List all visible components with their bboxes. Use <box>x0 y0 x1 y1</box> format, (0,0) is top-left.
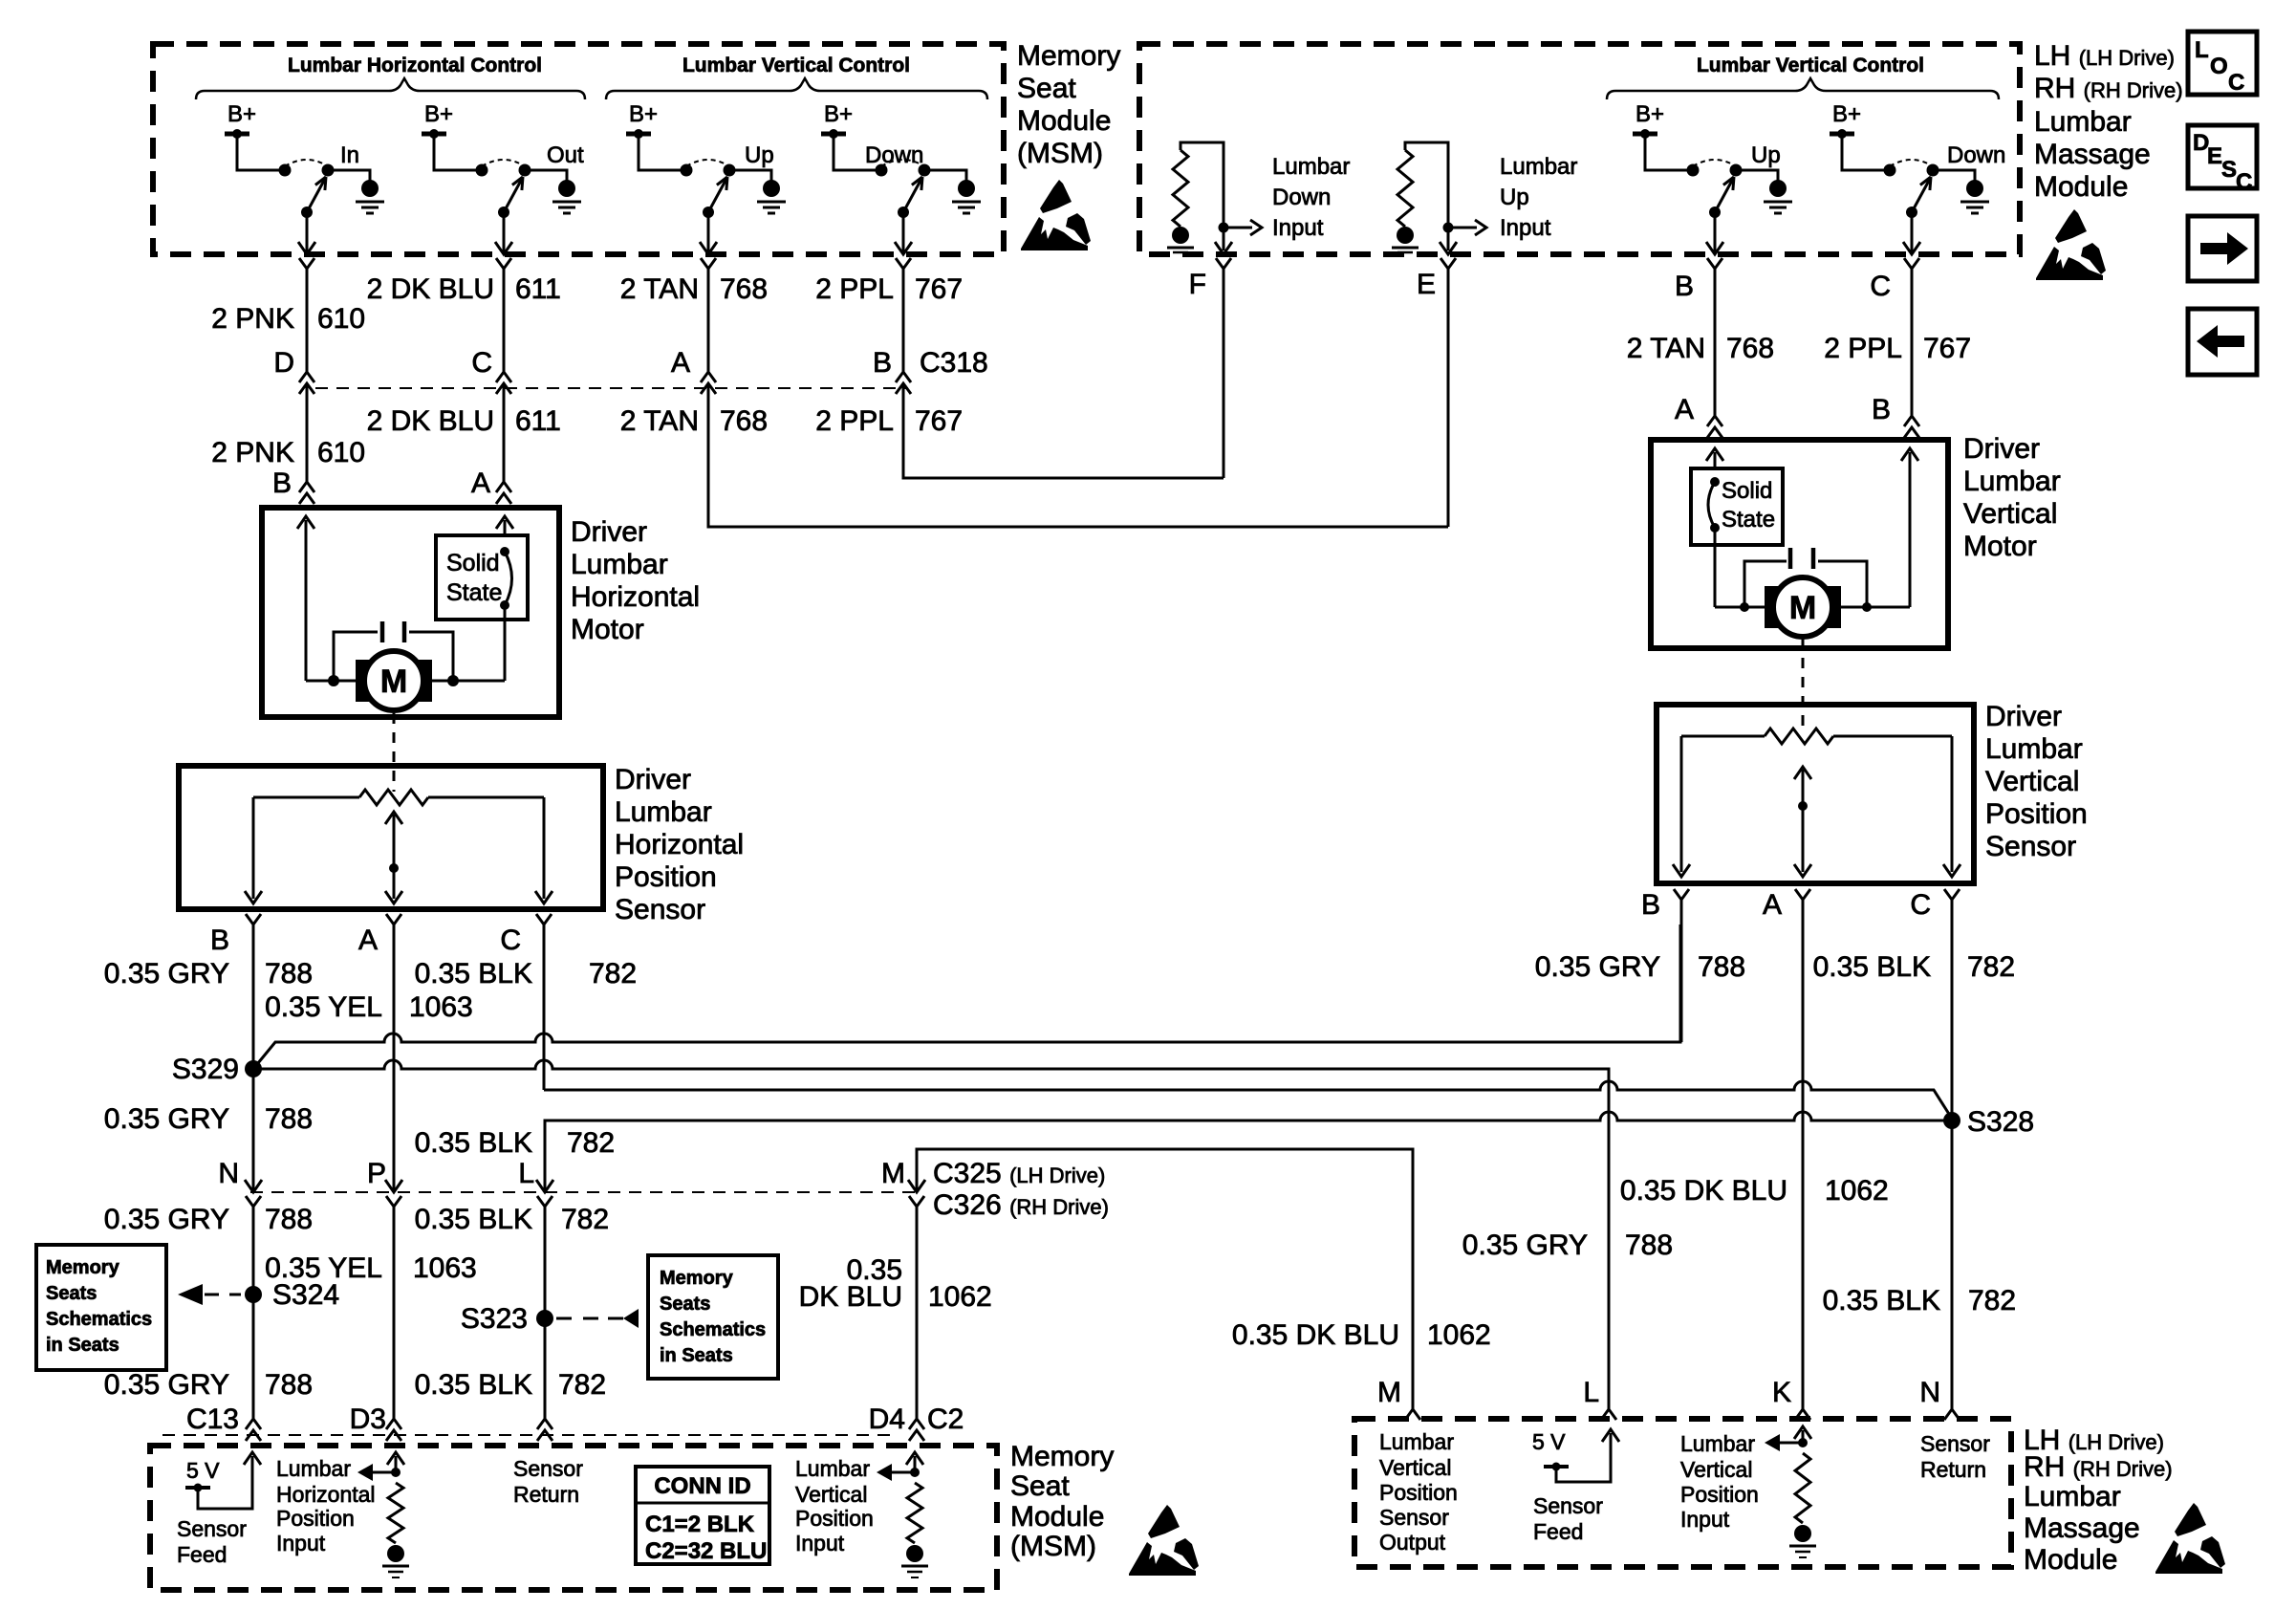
B+ feed terminal for Up switch <box>626 132 651 137</box>
wire 782 BLK S328 to MSM L (lineD) <box>545 1112 1952 1192</box>
svg-text:Lumbar: Lumbar <box>1985 733 2083 765</box>
motor M2 driver lumbar vertical <box>1765 586 1841 628</box>
button LOC <box>2188 32 2257 95</box>
B+ feed terminal for In switch <box>225 132 249 137</box>
svg-text:0.35 YEL: 0.35 YEL <box>265 991 382 1023</box>
switch Up contacts <box>681 164 693 177</box>
connector C318 dashed row <box>315 387 908 389</box>
wire motor pin B internal <box>305 520 308 681</box>
svg-text:Input: Input <box>1680 1507 1730 1532</box>
svg-text:Sensor: Sensor <box>1379 1505 1449 1530</box>
brace Lumbar Vertical Control (right) <box>1607 78 1999 99</box>
svg-text:Lumbar: Lumbar <box>615 796 712 828</box>
switch Up contacts <box>1687 164 1700 177</box>
wire vertical motor pin A internal <box>1714 452 1717 468</box>
potentiometer vertical sensor <box>1681 735 1765 738</box>
svg-text:In: In <box>340 142 359 168</box>
svg-text:Input: Input <box>795 1531 845 1556</box>
svg-text:Up: Up <box>745 142 774 168</box>
svg-text:Horizontal: Horizontal <box>615 829 744 860</box>
wire Down contact to ground <box>924 170 966 181</box>
svg-text:Feed: Feed <box>177 1542 227 1567</box>
svg-text:2 PNK: 2 PNK <box>211 437 294 468</box>
svg-text:L: L <box>1583 1377 1599 1408</box>
svg-text:0.35 GRY: 0.35 GRY <box>1535 951 1660 983</box>
switch Out arm <box>504 179 522 212</box>
svg-text:Sensor: Sensor <box>1533 1493 1603 1518</box>
svg-text:Seats: Seats <box>46 1283 97 1304</box>
svg-text:0.35 BLK: 0.35 BLK <box>1823 1285 1940 1316</box>
solid state switch contact (vertical) <box>1710 477 1720 487</box>
svg-text:Lumbar: Lumbar <box>1963 466 2061 497</box>
solid state switch contact <box>500 547 509 556</box>
svg-text:A: A <box>358 925 378 956</box>
wire M col to MSM D4 <box>916 1205 919 1419</box>
svg-text:1062: 1062 <box>1825 1175 1889 1207</box>
junction Lumbar Up Input <box>1443 223 1454 233</box>
ground for Lumbar Up Input resistor <box>1397 227 1414 244</box>
svg-text:0.35 BLK: 0.35 BLK <box>415 1204 532 1235</box>
svg-text:L: L <box>2195 37 2209 63</box>
MSM bottom connector dashed row <box>162 1434 895 1436</box>
ESD symbol bottom massage module <box>2175 1503 2206 1536</box>
wire sensor pin B internal <box>252 797 255 899</box>
wire 788 GRY S329 to massage L (lineB) <box>253 1060 1609 1409</box>
svg-text:(MSM): (MSM) <box>1017 138 1103 169</box>
svg-text:A: A <box>1763 889 1782 921</box>
resistor Lumbar Horizontal Position Input <box>395 1456 398 1472</box>
svg-text:Schematics: Schematics <box>660 1319 766 1340</box>
svg-text:C: C <box>2228 70 2244 96</box>
wire 0.35 DK BLU MSM M up-over to massage M <box>917 1149 1413 1409</box>
svg-text:Vertical: Vertical <box>1963 498 2057 530</box>
dashed mechanical link vertical motor to sensor <box>1802 639 1805 729</box>
resistor Lumbar Up Input <box>1397 150 1413 227</box>
svg-text:C2: C2 <box>927 1403 964 1435</box>
wire 782 BLK sensor C down to corner <box>543 925 546 1090</box>
wire resistor to F output <box>1180 142 1224 250</box>
svg-text:788: 788 <box>265 1103 313 1135</box>
svg-text:2 DK BLU: 2 DK BLU <box>367 273 494 305</box>
svg-text:1063: 1063 <box>409 991 473 1023</box>
memory seats schematics reference box (left) <box>36 1245 166 1370</box>
svg-text:B+: B+ <box>1635 101 1664 127</box>
svg-text:Solid: Solid <box>446 550 500 577</box>
svg-text:Module: Module <box>1017 105 1111 137</box>
svg-text:N: N <box>218 1158 239 1189</box>
svg-text:O: O <box>2210 54 2228 79</box>
wire Out switch output <box>503 212 506 252</box>
switch Down arm <box>903 179 921 212</box>
resistor Lumbar Vertical Position Input (MSM) <box>914 1456 917 1472</box>
wire 768 TAN from C318 to E input <box>708 383 1448 527</box>
svg-text:Driver: Driver <box>1985 701 2062 732</box>
wire F output down <box>1216 258 1231 269</box>
wire Down switch output <box>902 212 905 252</box>
wire In contact to ground <box>328 170 370 181</box>
wiper arm horizontal sensor <box>393 815 396 899</box>
svg-text:E: E <box>2207 143 2222 169</box>
svg-text:D: D <box>273 347 294 379</box>
wire Down contact to ground <box>1933 170 1975 181</box>
svg-text:5 V: 5 V <box>186 1458 220 1483</box>
svg-text:Memory: Memory <box>1017 40 1120 72</box>
wire Up switch output <box>707 212 710 252</box>
svg-text:610: 610 <box>317 303 365 335</box>
Lumbar Massage Module top dashed box <box>1139 44 2020 254</box>
motor M1 driver lumbar horizontal <box>356 660 432 702</box>
ground for Up switch <box>763 180 780 197</box>
svg-text:in Seats: in Seats <box>46 1335 119 1356</box>
svg-text:Sensor: Sensor <box>1985 831 2076 862</box>
CONN ID table <box>636 1467 769 1564</box>
svg-text:1062: 1062 <box>928 1281 992 1313</box>
resistor Lumbar Down Input <box>1173 150 1188 227</box>
wire B+ to Up switch contact <box>1645 136 1693 170</box>
svg-text:0.35 DK BLU: 0.35 DK BLU <box>1620 1175 1787 1207</box>
svg-text:Schematics: Schematics <box>46 1309 152 1330</box>
svg-text:Sensor: Sensor <box>177 1516 247 1541</box>
switch In arm <box>307 179 325 212</box>
wire 788 GRY vertical sensor B down <box>1680 900 1683 1042</box>
brace Lumbar Horizontal Control <box>196 78 585 99</box>
svg-text:S324: S324 <box>272 1279 339 1311</box>
svg-text:Lumbar Vertical Control: Lumbar Vertical Control <box>682 54 910 76</box>
B+ feed terminal for Out switch <box>422 132 446 137</box>
wire Up contact to ground <box>1736 170 1778 181</box>
wire 782 BLK vertical sensor C down to S328 and massage N <box>1951 900 1954 1409</box>
B+ feed terminal for Down switch <box>1830 132 1854 137</box>
svg-text:0.35 GRY: 0.35 GRY <box>104 1103 229 1135</box>
arrow Lumbar Down Input tap <box>1224 227 1252 229</box>
ESD symbol bottom MSM <box>1148 1505 1180 1538</box>
svg-text:768: 768 <box>720 273 768 305</box>
wire 1063 YEL P col to MSM D3 <box>393 1205 396 1419</box>
wire B+ to In switch contact <box>237 136 285 170</box>
svg-text:782: 782 <box>567 1127 615 1159</box>
wire vertical motor right lead <box>1832 606 1910 609</box>
potentiometer horizontal sensor <box>253 796 359 799</box>
Driver Lumbar Vertical Position Sensor box <box>1657 705 1974 883</box>
switch Out contacts <box>476 164 488 177</box>
wire In switch output <box>306 212 309 252</box>
svg-text:0.35 GRY: 0.35 GRY <box>1462 1229 1588 1261</box>
wiper arm vertical sensor <box>1802 770 1805 872</box>
brace Lumbar Vertical Control (left) <box>606 78 987 99</box>
svg-text:0.35 GRY: 0.35 GRY <box>104 1204 229 1235</box>
svg-text:Solid: Solid <box>1722 478 1772 504</box>
svg-text:Vertical: Vertical <box>1379 1455 1451 1480</box>
svg-text:B: B <box>1641 889 1660 921</box>
svg-text:782: 782 <box>1967 951 2015 983</box>
wire motor left lead <box>306 680 364 683</box>
svg-text:C13: C13 <box>186 1403 239 1435</box>
wire 611 DK BLU from Out switch to C318 <box>503 269 506 372</box>
svg-text:Massage: Massage <box>2034 139 2151 170</box>
svg-text:C: C <box>1910 889 1931 921</box>
wire motor right lead <box>423 680 505 683</box>
switch Up arm <box>708 179 726 212</box>
switch Down contacts <box>876 164 888 177</box>
svg-text:0.35 GRY: 0.35 GRY <box>104 1369 229 1401</box>
svg-text:Vertical: Vertical <box>1985 766 2079 797</box>
svg-text:S329: S329 <box>172 1054 239 1085</box>
svg-text:Down: Down <box>1272 185 1331 210</box>
svg-text:Input: Input <box>1500 215 1551 241</box>
svg-text:Seats: Seats <box>660 1294 710 1315</box>
svg-text:767: 767 <box>1923 333 1971 364</box>
wire 768 TAN from Up switch to C318 <box>707 269 710 372</box>
svg-text:CONN ID: CONN ID <box>654 1473 750 1499</box>
wire 767 PPL from C318 to F input <box>903 383 1224 478</box>
solid state box (vertical motor) <box>1691 468 1783 545</box>
switch Down arm <box>1912 179 1930 212</box>
svg-text:Input: Input <box>1272 215 1324 241</box>
svg-text:Lumbar: Lumbar <box>571 549 668 580</box>
svg-text:Output: Output <box>1379 1530 1446 1555</box>
wire vertical sensor pin C internal <box>1951 736 1954 872</box>
svg-text:D3: D3 <box>350 1403 386 1435</box>
svg-text:C: C <box>2236 169 2252 195</box>
svg-text:Lumbar: Lumbar <box>795 1456 870 1481</box>
svg-text:2 PNK: 2 PNK <box>211 303 294 335</box>
wire 767 PPL from Down switch to C318 <box>902 269 905 372</box>
svg-text:782: 782 <box>561 1204 609 1235</box>
svg-text:Up: Up <box>1751 142 1781 168</box>
Memory Seat Module (MSM) top dashed box <box>153 44 1004 254</box>
ground for Up switch <box>1769 180 1787 197</box>
svg-text:Horizontal: Horizontal <box>276 1482 376 1507</box>
svg-text:0.35 DK BLU: 0.35 DK BLU <box>1232 1319 1399 1351</box>
svg-text:610: 610 <box>317 437 365 468</box>
svg-text:Down: Down <box>865 142 923 168</box>
svg-text:B: B <box>873 347 892 379</box>
svg-text:768: 768 <box>1726 333 1774 364</box>
svg-text:788: 788 <box>265 1369 313 1401</box>
svg-text:A: A <box>671 347 690 379</box>
svg-text:Position: Position <box>1680 1482 1759 1507</box>
wire 782 BLK sensor C to S328 (lineC) <box>544 1081 1952 1119</box>
svg-text:788: 788 <box>1625 1229 1673 1261</box>
svg-text:Return: Return <box>1920 1457 1986 1482</box>
svg-text:Vertical: Vertical <box>1680 1457 1752 1482</box>
svg-text:5 V: 5 V <box>1532 1429 1566 1454</box>
svg-text:Input: Input <box>276 1531 326 1556</box>
wire vertical motor pin B internal <box>1909 452 1912 607</box>
svg-text:Lumbar: Lumbar <box>1272 154 1350 180</box>
Driver Lumbar Vertical Motor box <box>1651 440 1948 648</box>
ESD symbol top massage module <box>2055 209 2087 243</box>
Lumbar Massage Module bottom dashed box <box>1354 1419 2011 1567</box>
wire resistor to E output <box>1405 142 1448 250</box>
button next arrow <box>2188 216 2257 281</box>
svg-text:B+: B+ <box>424 101 453 127</box>
svg-text:Sensor: Sensor <box>1920 1431 1990 1456</box>
wire vertical sensor pin B internal <box>1680 736 1683 872</box>
B+ feed terminal for Up switch <box>1633 132 1657 137</box>
svg-text:Driver: Driver <box>571 516 647 548</box>
svg-text:Position: Position <box>1379 1480 1458 1505</box>
svg-text:0.35 GRY: 0.35 GRY <box>104 958 229 990</box>
svg-text:767: 767 <box>915 273 963 305</box>
svg-text:C: C <box>1870 271 1891 302</box>
wire B+ to Down switch contact <box>834 136 881 170</box>
wire 788 GRY N col to MSM C13 via S324 <box>252 1205 255 1419</box>
wire 767 PPL massage C down <box>1911 269 1914 417</box>
svg-text:Module: Module <box>2024 1544 2117 1576</box>
ground for In switch <box>361 180 379 197</box>
svg-text:2 TAN: 2 TAN <box>620 273 699 305</box>
wire B+ to Down switch contact <box>1842 136 1890 170</box>
svg-text:Seat: Seat <box>1017 73 1076 104</box>
splice S329 <box>245 1060 262 1077</box>
ESD symbol top MSM <box>1040 180 1072 213</box>
svg-text:B+: B+ <box>227 101 256 127</box>
wire 788 GRY sensor B down to S329 <box>252 925 255 1192</box>
svg-text:Out: Out <box>547 142 584 168</box>
svg-text:B: B <box>272 468 292 499</box>
B+ feed terminal for Down switch <box>821 132 846 137</box>
svg-text:Up: Up <box>1500 185 1529 210</box>
svg-text:782: 782 <box>558 1369 606 1401</box>
svg-text:Lumbar: Lumbar <box>2024 1481 2121 1512</box>
switch In contacts <box>279 164 292 177</box>
svg-text:Driver: Driver <box>1963 433 2040 465</box>
arrow Lumbar Up Input tap <box>1448 227 1477 229</box>
svg-text:Sensor: Sensor <box>615 894 705 925</box>
wire Up switch output <box>1714 212 1717 252</box>
ground for Out switch <box>558 180 575 197</box>
svg-text:Module: Module <box>2034 171 2128 203</box>
svg-text:767: 767 <box>915 405 963 437</box>
splice S328 <box>1943 1112 1960 1129</box>
svg-text:Massage: Massage <box>2024 1512 2140 1544</box>
svg-text:F: F <box>1189 269 1206 300</box>
wire vertical motor left lead <box>1715 606 1773 609</box>
svg-text:0.35 BLK: 0.35 BLK <box>1813 951 1931 983</box>
svg-text:B+: B+ <box>824 101 853 127</box>
svg-text:B+: B+ <box>1832 101 1861 127</box>
svg-text:788: 788 <box>265 1204 313 1235</box>
svg-text:B+: B+ <box>629 101 658 127</box>
wire B+ to Out switch contact <box>434 136 482 170</box>
svg-text:Lumbar: Lumbar <box>276 1456 351 1481</box>
wire Down switch output <box>1911 212 1914 252</box>
svg-text:788: 788 <box>1698 951 1745 983</box>
wire Up contact to ground <box>729 170 771 181</box>
svg-text:Feed: Feed <box>1533 1519 1583 1544</box>
wire 610 PNK from In switch to C318 <box>306 269 309 372</box>
svg-text:Memory: Memory <box>46 1257 120 1278</box>
solid state box (horizontal motor) <box>436 535 528 620</box>
svg-text:2 PPL: 2 PPL <box>815 273 894 305</box>
splice S323 with reference arrow <box>536 1310 553 1327</box>
svg-text:N: N <box>1919 1377 1940 1408</box>
svg-text:S: S <box>2221 157 2237 183</box>
capacitor bypass over motor <box>328 675 339 686</box>
svg-text:K: K <box>1772 1377 1791 1408</box>
svg-text:C1=2 BLK: C1=2 BLK <box>645 1512 755 1537</box>
svg-text:M: M <box>1789 590 1816 626</box>
wire 1062 DK BLU vertical sensor A down to massage K <box>1802 900 1805 1409</box>
svg-text:DK BLU: DK BLU <box>799 1281 902 1313</box>
Driver Lumbar Horizontal Motor box <box>262 508 559 717</box>
svg-text:Return: Return <box>513 1482 579 1507</box>
svg-text:Position: Position <box>615 861 717 893</box>
button back arrow <box>2188 309 2257 375</box>
ground for Lumbar Down Input resistor <box>1172 227 1189 244</box>
svg-text:Lumbar: Lumbar <box>2034 106 2132 138</box>
svg-text:782: 782 <box>589 958 637 990</box>
svg-text:611: 611 <box>515 405 561 437</box>
svg-text:2 PPL: 2 PPL <box>1824 333 1902 364</box>
wire 768 TAN massage B down <box>1714 269 1717 417</box>
svg-text:in Seats: in Seats <box>660 1345 733 1366</box>
svg-text:B: B <box>210 925 229 956</box>
svg-text:Memory: Memory <box>1010 1441 1114 1472</box>
wire E output down <box>1440 258 1456 269</box>
svg-text:P: P <box>367 1158 386 1189</box>
svg-text:1063: 1063 <box>413 1252 477 1284</box>
svg-text:M: M <box>380 664 407 700</box>
svg-text:M: M <box>881 1158 905 1189</box>
svg-text:2 PPL: 2 PPL <box>815 405 894 437</box>
wire Out contact to ground <box>525 170 567 181</box>
dashed mechanical link motor to sensor <box>393 713 396 792</box>
svg-text:768: 768 <box>720 405 768 437</box>
splice S324 with reference arrow <box>245 1286 262 1303</box>
wire sensor pin C internal <box>543 797 546 899</box>
Driver Lumbar Horizontal Position Sensor box <box>179 766 603 909</box>
svg-text:Lumbar: Lumbar <box>1680 1431 1755 1456</box>
junction Lumbar Down Input <box>1219 223 1229 233</box>
svg-text:Position: Position <box>795 1506 874 1531</box>
svg-text:E: E <box>1417 269 1436 300</box>
wire 1063 YEL sensor A down to C325 P <box>393 925 396 1192</box>
svg-text:1062: 1062 <box>1427 1319 1491 1351</box>
svg-text:C: C <box>471 347 492 379</box>
svg-text:D4: D4 <box>869 1403 905 1435</box>
svg-text:A: A <box>1675 394 1694 425</box>
svg-text:Horizontal: Horizontal <box>571 581 700 613</box>
svg-text:Motor: Motor <box>571 614 644 645</box>
svg-text:Sensor: Sensor <box>513 1456 583 1481</box>
svg-text:0.35 BLK: 0.35 BLK <box>415 1369 532 1401</box>
wire 782 BLK L col to MSM sensor return via S323 <box>544 1205 547 1419</box>
svg-text:2 TAN: 2 TAN <box>620 405 699 437</box>
svg-text:0.35 BLK: 0.35 BLK <box>415 1127 532 1159</box>
wire 611 DK BLU from C318 to motor pin A <box>503 383 506 483</box>
svg-text:S323: S323 <box>461 1303 528 1335</box>
resistor Lumbar Vertical Position Input (massage) <box>1802 1430 1805 1443</box>
svg-text:782: 782 <box>1968 1285 2016 1316</box>
svg-text:611: 611 <box>515 273 561 305</box>
svg-text:Down: Down <box>1947 142 2005 168</box>
svg-text:C2=32 BLU: C2=32 BLU <box>645 1538 767 1564</box>
svg-text:L: L <box>518 1158 534 1189</box>
svg-text:2 DK BLU: 2 DK BLU <box>367 405 494 437</box>
svg-text:C: C <box>500 925 521 956</box>
svg-text:B: B <box>1675 271 1694 302</box>
Memory Seat Module (MSM) bottom dashed box <box>150 1446 997 1590</box>
svg-text:State: State <box>446 579 502 606</box>
button DESC <box>2188 125 2257 188</box>
svg-text:A: A <box>471 468 490 499</box>
svg-text:B: B <box>1872 394 1891 425</box>
svg-text:C318: C318 <box>920 347 988 379</box>
svg-text:Lumbar: Lumbar <box>1379 1429 1454 1454</box>
svg-text:Module: Module <box>1010 1501 1104 1533</box>
